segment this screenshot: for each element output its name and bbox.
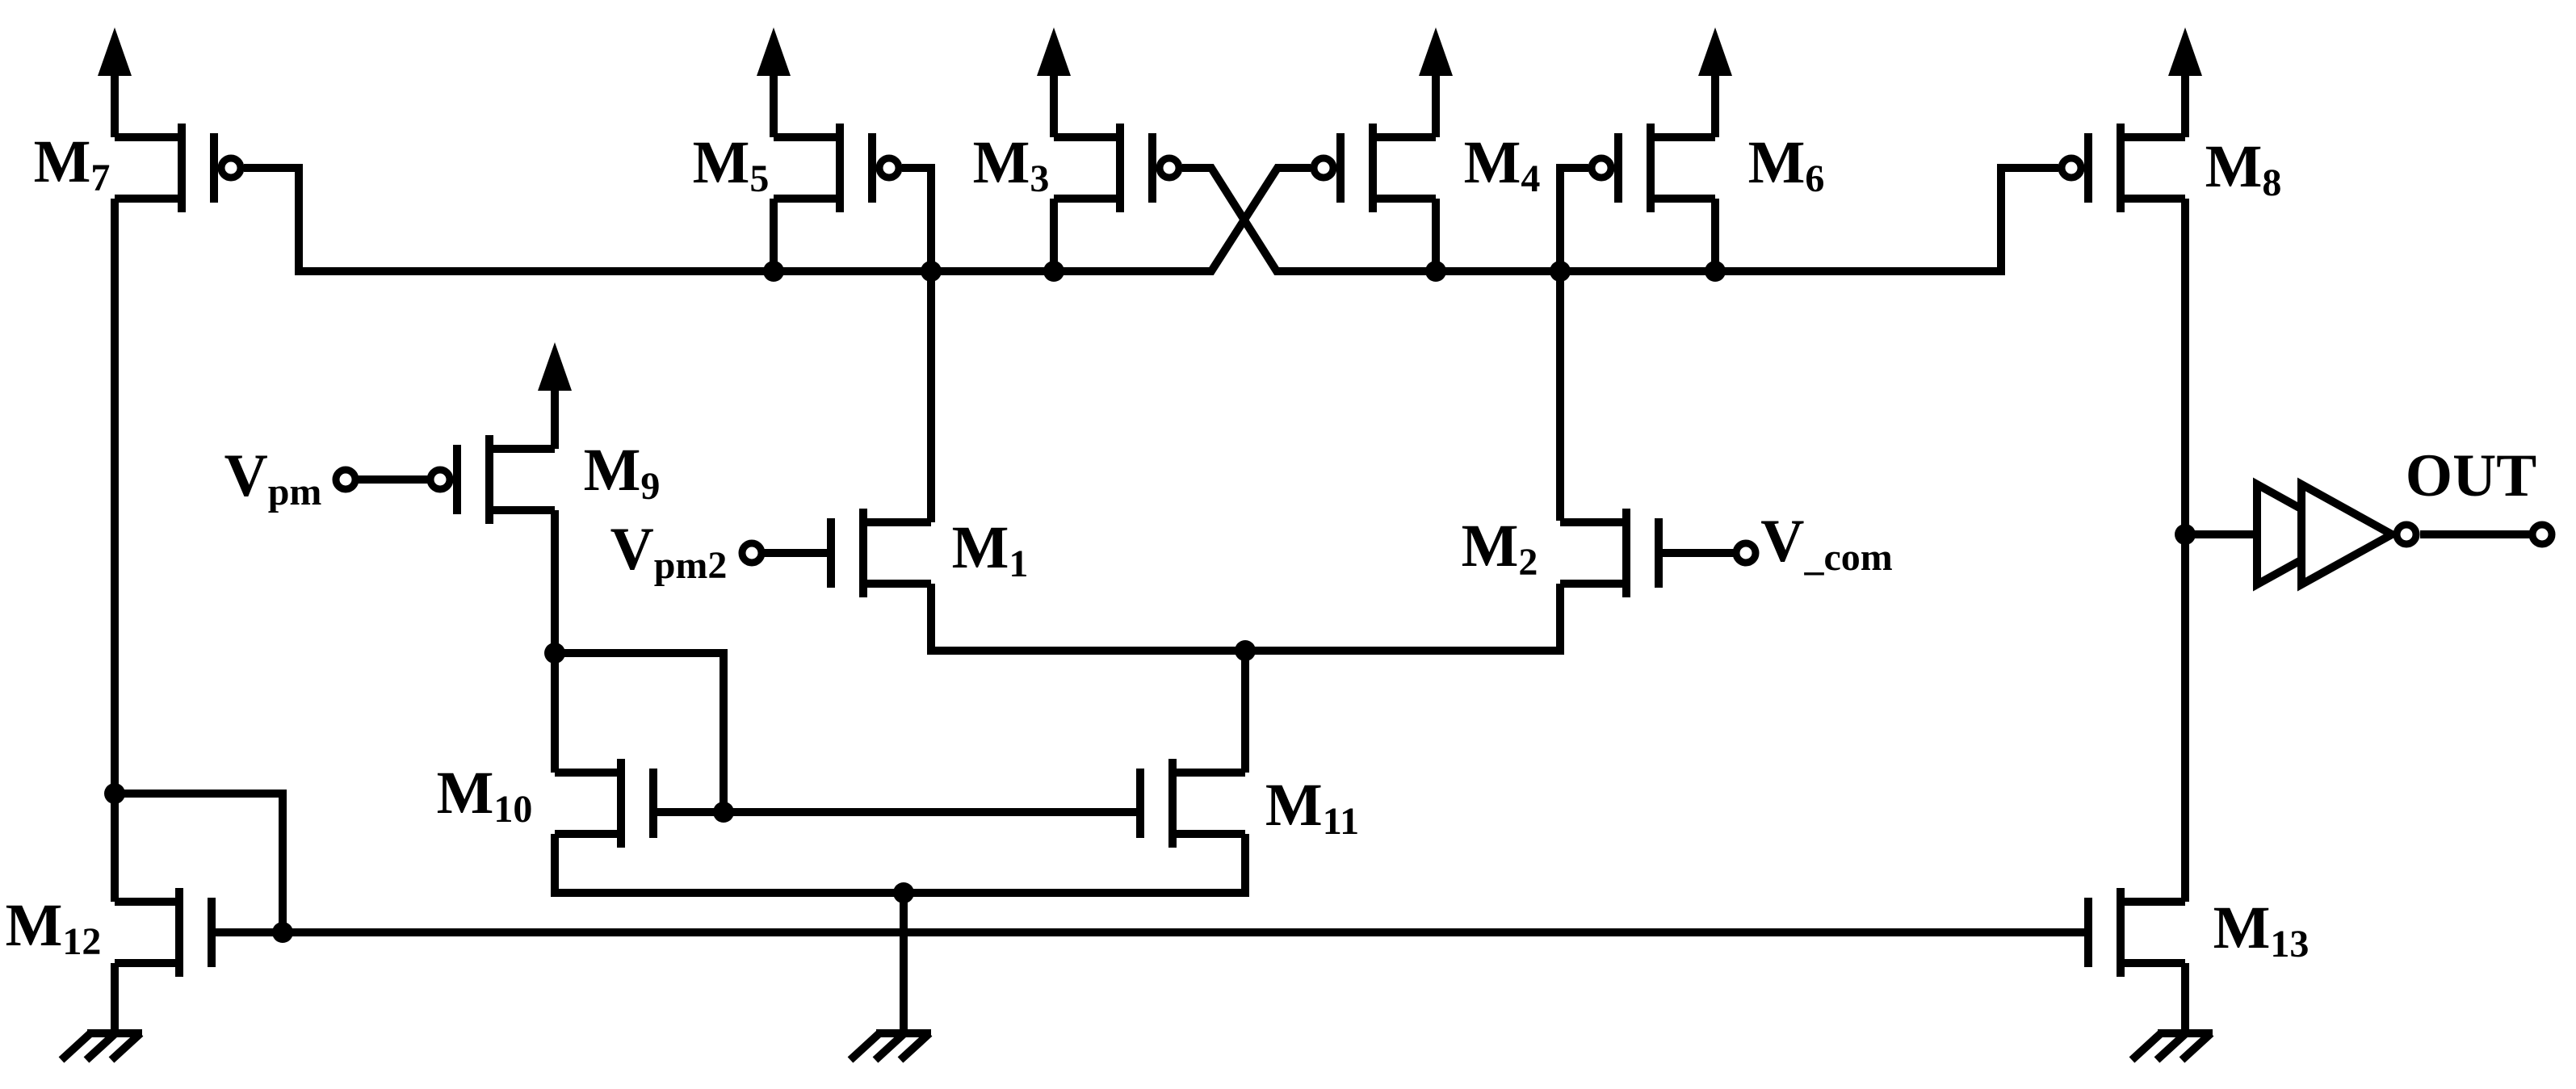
svg-text:OUT: OUT xyxy=(2406,442,2537,509)
